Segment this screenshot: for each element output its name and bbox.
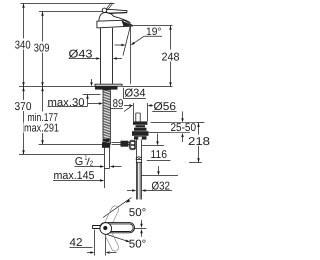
O56 right arrow tail [151,105,153,107]
ext line min/max 291 bottom [39,144,109,146]
116 bottom arrow tail [158,166,160,172]
svg-text:Ø32: Ø32 [152,180,171,192]
89 underline [110,108,123,110]
svg-text:50°: 50° [129,238,147,250]
arrow Ghalf right-side left [110,165,114,168]
spout tab [93,226,100,229]
O43 underline leader [69,58,97,60]
218 bottom ext line [189,162,202,164]
ext line hose end 370 bottom [19,154,105,156]
arrow 309 counter down [41,82,44,86]
arrow O43 right [113,57,117,60]
svg-text:max.291: max.291 [24,122,59,134]
arrow max30 up [86,95,89,99]
50deg lower angle arrow tail [141,233,143,237]
arrowheads [22,4,200,254]
arrow 116 top down [156,141,159,145]
116 underline [147,160,171,162]
O56 ext line right [147,103,149,121]
lever needle [106,3,113,11]
tailpipe [136,140,142,200]
arrow 248 bottom down [169,82,172,86]
dim line 309/min-max vertical [42,12,44,145]
25-50 down arrow tail [182,112,184,119]
lever knob [102,8,106,12]
arrow 50deg lower at ray up [140,229,143,233]
counter line right [123,86,173,88]
dome cap [99,13,131,23]
arrow O32 right-side left [142,189,146,192]
50deg upper angle arrow tail [141,220,143,224]
42 right arrow tail [110,252,117,254]
116 top ext line [142,145,164,147]
arrow 25-50 down [181,118,184,122]
counter line left [19,86,95,88]
base plate outline [95,84,122,86]
ext line top 340 [21,3,115,5]
arrow 50deg lower leader tip [126,240,130,243]
aerator dark tip [122,20,133,26]
arrow minmax bottom down [41,140,44,144]
arrow 50deg upper at ray down [140,224,143,228]
svg-text:340: 340 [15,39,31,51]
arrow 89 right [99,102,103,105]
hose connector pipe [105,148,110,188]
arrow 19deg on slant [121,44,125,47]
pipe z-break [136,156,142,159]
arrow minmax counter up [41,87,44,91]
arrow max30 down [90,82,93,86]
42 ext line right [105,235,107,256]
plug cap [133,121,147,124]
shank washer [103,139,109,142]
arrow Ghalf left-side right [100,165,104,168]
arrow O32 left-side right [132,189,136,192]
svg-text:max.30: max.30 [48,97,85,109]
body circle [100,223,112,235]
svg-text:116: 116 [151,149,168,161]
svg-text:309: 309 [34,42,50,54]
pivot housing [112,140,136,149]
19deg left arrow tail [115,44,122,46]
25-50 up arrow tail [182,137,184,142]
arrow 25-50 up [181,133,184,137]
faucet column [100,28,102,84]
50deg upper leader [103,198,132,218]
svg-text:max.145: max.145 [54,170,95,182]
arrow 340 counter down [22,82,25,86]
dim line 340/370 vertical [23,4,25,155]
svg-text:Ø43: Ø43 [69,49,93,61]
spout body [97,20,132,28]
lever stadium outer [100,223,135,233]
subnut notch [138,137,142,140]
O43 right arrow tail [117,58,122,60]
G half underline leader [75,166,101,168]
tilted lever upper [103,205,120,229]
arrow O43 left [96,57,100,60]
42 left arrow tail [87,252,90,254]
arrow 19deg leader [131,42,135,45]
shank hatch [103,90,110,144]
dim line 218 vertical [198,123,200,163]
arrow 248 top up [169,26,172,30]
locknut [132,131,149,136]
ring [136,125,146,127]
arrow 42 right-side left [106,251,110,254]
pipe joint band [136,158,142,160]
arrow 309 top up [41,12,44,16]
svg-text:19°: 19° [146,26,162,38]
O32 underline leader [145,190,172,192]
arrow 218 top up [197,123,200,127]
19deg slanted spout axis [123,25,131,55]
19deg vertical ref line [130,26,132,84]
89 arrow tail [88,103,99,105]
shank body [103,90,110,144]
lever blade dark underside [109,12,127,15]
svg-text:218: 218 [188,136,210,148]
42 ext line left [94,230,96,256]
inner pipe [137,162,139,199]
flange [134,128,147,131]
base plate dark band [95,86,118,89]
arrow 370 counter up [22,87,25,91]
arrow 218 bottom down [197,158,200,162]
G half right arrow tail [114,166,122,168]
subnut [134,136,147,139]
O56 diagonal tick [124,107,131,112]
svg-text:248: 248 [162,52,180,64]
arrow 340 top up [22,4,25,8]
max145 underline leader [53,180,100,182]
center dot [103,226,107,230]
O34 bracket [124,88,146,99]
50deg horizontal ray [135,228,147,230]
svg-text:89: 89 [113,98,124,110]
max30 underline [48,106,88,108]
svg-text:25-50: 25-50 [171,122,197,134]
svg-text:2: 2 [90,160,94,167]
arrow 50deg upper leader tip [126,199,130,203]
mounting nut [102,142,110,147]
116 bottom ext line [142,175,179,177]
dim line 248 vertical [170,26,172,87]
arrow 370 bottom down [22,150,25,154]
19deg underline [144,35,162,37]
svg-text:Ø34: Ø34 [125,88,146,100]
arrow O56 right-side left [148,104,152,107]
max30 down arrow tail [91,79,93,83]
arrow 116 bottom down [157,171,160,175]
svg-text:50°: 50° [129,207,147,219]
deck top right [151,122,205,124]
max30 vertical leader [87,95,89,107]
arrow O56 left-side right [129,104,133,107]
arrow max145 right [100,179,104,182]
lever stadium inner [101,224,133,232]
deck bottom left [83,94,101,96]
50deg lower leader [104,234,129,242]
svg-text:G: G [75,156,84,168]
lever blade [106,9,127,13]
arrow 42 left-side right [90,251,94,254]
ext line spout tip [132,25,173,27]
pivot rod dark [121,141,129,147]
116 top arrow tail [157,134,159,142]
O56 left arrow tail [124,105,129,107]
plug stem [136,113,140,121]
O56 ext line left [133,103,135,121]
42 underline [70,247,93,249]
O32 left arrow tail [127,190,132,192]
tilted lever lower [103,228,120,252]
svg-text:Ø56: Ø56 [154,101,177,113]
19deg text leader [133,36,144,43]
svg-text:42: 42 [70,237,83,249]
pivot rod [112,142,130,144]
deck bottom right [149,132,190,134]
O56 underline [152,111,176,113]
ext line top 309 [39,11,103,13]
